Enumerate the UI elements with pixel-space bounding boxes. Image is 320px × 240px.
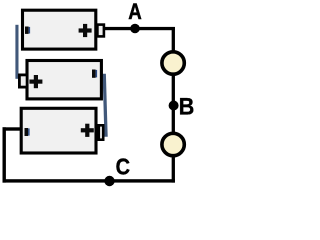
svg-text:C: C bbox=[116, 153, 131, 180]
battery BT3 negative terminal mark bbox=[25, 128, 30, 136]
battery BT3 positive mark bbox=[81, 124, 94, 137]
battery BT2 (middle cell) bbox=[27, 61, 101, 99]
battery BT2 left terminal nub bbox=[19, 75, 27, 87]
battery BT2 positive mark bbox=[29, 75, 42, 88]
svg-text:B: B bbox=[179, 93, 195, 120]
wire: top segment from BT1 nub to corner, node A on it bbox=[105, 27, 175, 30]
lamp L2 (lower bulb) bbox=[162, 133, 184, 155]
wire W2 (blue, battery BT2 negative to battery BT3 positive) bbox=[103, 74, 108, 137]
battery BT3 right terminal nub bbox=[99, 125, 103, 139]
battery BT2 negative terminal mark bbox=[92, 70, 97, 78]
wire: bottom segment with node C bbox=[3, 179, 175, 182]
battery BT3 (bottom cell) bbox=[21, 108, 96, 153]
wire: right vertical segment through lamps L1,L2 bbox=[172, 27, 175, 183]
battery BT1 right terminal nub bbox=[97, 25, 104, 37]
wire W1 (blue, battery BT1 negative to battery BT2 positive) bbox=[15, 25, 18, 79]
battery BT1 negative terminal mark bbox=[25, 27, 30, 34]
battery BT1 (top cell) bbox=[23, 10, 96, 49]
node C junction dot bbox=[104, 176, 114, 186]
wire: left vertical segment bbox=[3, 127, 6, 182]
wire: stub from battery BT3 negative terminal to left wire bbox=[3, 127, 22, 130]
svg-text:A: A bbox=[128, 0, 142, 24]
battery BT1 positive mark bbox=[79, 24, 92, 37]
node B junction dot bbox=[169, 101, 179, 111]
node A junction dot bbox=[130, 24, 140, 34]
lamp L1 (upper bulb) bbox=[162, 52, 184, 74]
